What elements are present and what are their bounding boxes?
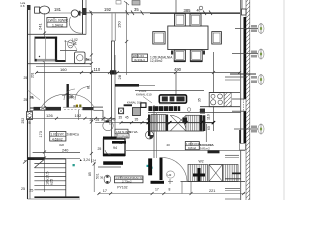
svg-text:94: 94: [113, 146, 117, 150]
svg-text:173: 173: [39, 131, 43, 137]
svg-text:x25: x25: [50, 179, 54, 185]
svg-text:36: 36: [30, 95, 34, 99]
svg-text:25: 25: [27, 121, 31, 125]
svg-text:17: 17: [155, 188, 159, 192]
svg-text:1,94m2: 1,94m2: [52, 24, 63, 28]
svg-text:85: 85: [119, 141, 123, 145]
svg-text:490: 490: [174, 67, 182, 72]
svg-text:36: 36: [100, 176, 104, 180]
svg-text:PY102: PY102: [117, 186, 127, 190]
svg-text:30: 30: [70, 95, 74, 99]
svg-text:14: 14: [101, 118, 105, 122]
svg-text:KANAL 010: KANAL 010: [127, 100, 142, 104]
svg-text:0.8: 0.8: [21, 4, 25, 8]
svg-text:85: 85: [88, 172, 92, 176]
svg-text:LW: LW: [48, 18, 54, 22]
svg-text:25: 25: [96, 118, 100, 122]
svg-text:35: 35: [198, 98, 202, 102]
svg-text:5a: 5a: [86, 57, 90, 61]
svg-text:252: 252: [21, 118, 25, 124]
svg-text:12,45m2: 12,45m2: [150, 59, 163, 63]
svg-text:SYP.: SYP.: [57, 133, 64, 137]
svg-text:1.01: 1.01: [50, 133, 56, 137]
svg-text:240: 240: [62, 149, 68, 153]
svg-text:25: 25: [21, 187, 25, 191]
svg-text:SUPAB: SUPAB: [118, 134, 128, 138]
svg-text:17: 17: [103, 189, 107, 193]
svg-text:501: 501: [96, 173, 100, 179]
svg-text:25: 25: [98, 147, 102, 151]
svg-text:126: 126: [46, 113, 53, 118]
svg-text:124: 124: [91, 158, 96, 162]
svg-text:385: 385: [184, 8, 192, 13]
svg-text:2xB/4Ca: 2xB/4Ca: [67, 133, 79, 137]
svg-text:3L3/4L3: 3L3/4L3: [134, 58, 145, 62]
svg-text:3x8: 3x8: [59, 143, 64, 147]
svg-text:221: 221: [209, 189, 215, 193]
svg-text:150: 150: [117, 21, 122, 28]
svg-text:25: 25: [29, 188, 33, 192]
svg-text:45: 45: [125, 115, 129, 119]
svg-text:192: 192: [104, 7, 112, 12]
svg-text:35: 35: [134, 7, 139, 12]
svg-text:4,63m2: 4,63m2: [52, 137, 63, 141]
svg-text:181: 181: [54, 7, 62, 12]
svg-text:9,8m2: 9,8m2: [188, 146, 196, 150]
svg-text:WR: WR: [73, 105, 79, 109]
svg-text:110: 110: [94, 67, 101, 72]
svg-text:8: 8: [169, 188, 171, 192]
svg-text:102: 102: [75, 113, 82, 118]
svg-text:20: 20: [199, 108, 204, 113]
svg-text:110: 110: [207, 114, 211, 120]
svg-text:28: 28: [117, 74, 122, 79]
svg-text:9,81m2: 9,81m2: [200, 146, 210, 150]
svg-text:160: 160: [60, 67, 67, 72]
svg-text:35: 35: [119, 115, 123, 119]
svg-text:H3: H3: [168, 173, 172, 177]
svg-text:1.07: 1.07: [115, 176, 121, 180]
svg-text:201: 201: [31, 72, 35, 78]
svg-text:W2: W2: [199, 160, 204, 164]
svg-text:81: 81: [87, 85, 91, 89]
svg-text:▲ 3,24: ▲ 3,24: [79, 158, 90, 162]
svg-text:241: 241: [38, 23, 43, 30]
svg-text:N3 WL: N3 WL: [129, 130, 139, 134]
svg-text:25: 25: [24, 98, 28, 102]
svg-text:25: 25: [24, 76, 28, 80]
svg-text:24: 24: [90, 118, 94, 122]
svg-text:20: 20: [167, 143, 171, 147]
svg-text:1.03/WC: 1.03/WC: [55, 18, 69, 22]
svg-text:35: 35: [135, 117, 139, 121]
svg-text:60: 60: [207, 126, 211, 130]
svg-text:2,73m2: 2,73m2: [122, 179, 132, 183]
svg-text:KANAL 010: KANAL 010: [136, 93, 152, 97]
